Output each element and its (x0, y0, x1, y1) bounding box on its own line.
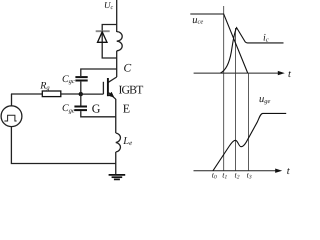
pulse source V1 (1, 106, 22, 127)
wire Rg to gate node (61, 93, 81, 95)
wire source bottom return rail (11, 127, 115, 164)
svg-text:t: t (287, 166, 291, 177)
curve ic (221, 28, 284, 73)
svg-text:uce: uce (192, 15, 203, 26)
svg-text:ic: ic (263, 33, 269, 44)
svg-text:Cgc: Cgc (62, 74, 75, 85)
svg-text:G: G (92, 102, 101, 116)
reference line t1 (223, 6, 225, 171)
curve uge (213, 113, 286, 170)
IGBT V (103, 77, 144, 99)
wire freewheel top branch (102, 25, 117, 59)
resistor Rg (39, 80, 61, 96)
svg-text:Le: Le (122, 136, 132, 147)
wire node to gate (81, 93, 104, 95)
wire collector (116, 58, 118, 77)
diode VD cathode bar (96, 30, 110, 32)
inductor Le (116, 133, 121, 174)
svg-text:E: E (123, 102, 130, 116)
wire top rail to Rg (11, 93, 42, 95)
svg-text:t0: t0 (212, 171, 217, 181)
reference line t3 (247, 73, 249, 171)
svg-text:t1: t1 (222, 171, 227, 181)
wire emitter down (115, 99, 117, 133)
svg-text:Cge: Cge (62, 103, 75, 114)
inductor load coil (117, 25, 123, 59)
curve uce (190, 14, 247, 73)
ground (109, 175, 126, 180)
wire supply down (116, 0, 118, 25)
svg-text:t3: t3 (247, 171, 252, 181)
bottom plot time axis (194, 166, 291, 177)
capacitor Cgc (62, 69, 117, 94)
reference line t2 (234, 28, 236, 171)
svg-text:t2: t2 (235, 171, 240, 181)
svg-text:C: C (124, 63, 132, 75)
wire source top to rail (11, 94, 13, 106)
top plot time axis (194, 69, 292, 80)
svg-text:Uc: Uc (104, 0, 114, 11)
capacitor Cge (62, 94, 116, 117)
svg-text:t: t (288, 69, 292, 80)
svg-text:Rg: Rg (39, 80, 50, 91)
svg-text:uge: uge (259, 94, 271, 105)
diode VD (98, 32, 108, 43)
node gate drive junction (79, 92, 83, 96)
svg-text:IGBT: IGBT (119, 83, 145, 97)
